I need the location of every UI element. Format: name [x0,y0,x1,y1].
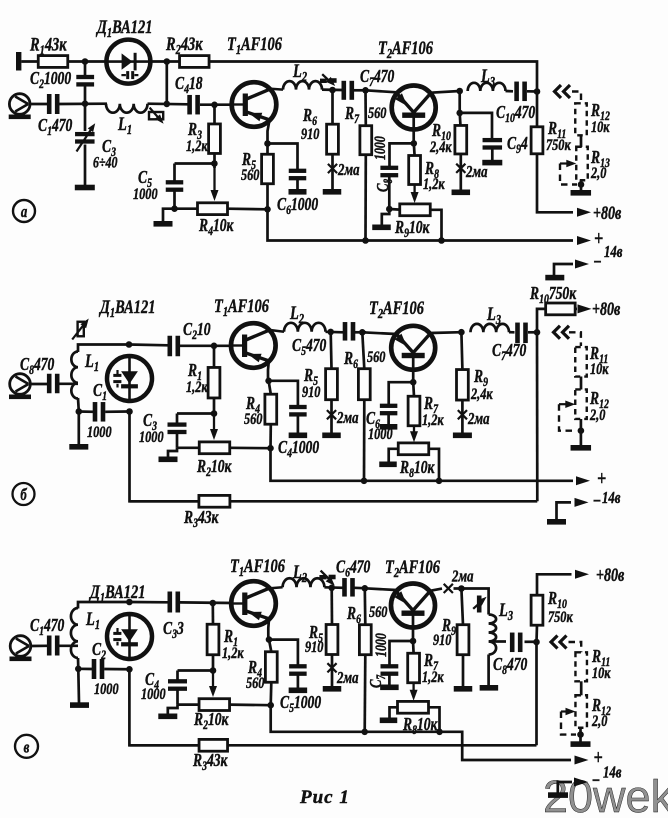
label C4 18 [175,74,203,96]
label T2 AF106 b [369,297,424,321]
wire C3 leads [84,104,87,185]
wire R4 bottom [269,424,272,448]
resistor R4 560 b [265,394,277,424]
resistor R1 b [208,367,220,398]
capacitor C1 v [47,636,60,656]
label R7 value v [422,668,444,686]
label C4 1000 b [278,438,319,460]
capacitor C7 v [381,664,399,676]
wire to ground [168,448,177,457]
wire R4 left to ground [163,209,198,222]
label R8 value [423,175,445,193]
node R4-R2 v [267,702,274,709]
wire top row to C3 v [129,601,168,604]
label R8 [424,159,439,181]
svg-text:14в: 14в [604,243,623,261]
svg-text:1,2к: 1,2к [186,378,208,396]
transistor T1 AF106 b [231,323,276,368]
inductor L2 b [284,323,326,332]
svg-text:1000: 1000 [94,680,119,698]
diode D1 BA121 v (varicap) [107,614,152,659]
ground R13 [571,190,592,196]
wire [150,60,180,63]
label C5 470 b [292,336,326,358]
label R13 [590,148,610,170]
wire R2 left [177,446,199,449]
wire [60,382,79,385]
svg-text:Д1ВА121: Д1ВА121 [88,581,145,605]
wire C5 row [175,162,215,165]
label R1 value b [186,378,208,396]
node C6-R6 v [362,585,369,592]
wire R1 bottom v [212,655,215,673]
transistor T1 AF106 [232,82,277,127]
variable capacitor C3 [75,123,95,151]
label L2 [292,60,307,84]
svg-text:1000: 1000 [368,425,393,443]
wire to ground v [168,705,178,714]
ground minus stub b [547,519,566,525]
wiper arrow into R2 b [210,415,218,440]
wire [30,103,47,106]
wiper arrow into R4 [211,165,219,201]
wire C3 row [177,412,214,415]
wire top rail to +80v corner [209,62,573,213]
capacitor C6 b [380,404,398,416]
label +80v [593,202,622,223]
transistor T2 AF106 b [391,326,435,370]
capacitor C4 v [168,679,187,691]
label R7 [344,104,360,126]
ground R10 [452,190,471,196]
svg-text:560: 560 [241,166,259,184]
node D1-R2 [164,58,171,65]
chevrons AGC b [554,326,570,339]
input jack b [9,374,31,399]
resistor R9 910 v [457,625,469,655]
label L1 b [84,350,99,374]
svg-text:1000: 1000 [87,423,112,441]
label R10 [431,121,451,143]
svg-text:C6470: C6470 [336,558,370,580]
label C3 b [143,411,157,433]
ground C5 v [289,688,308,694]
resistor R4 560 v [265,652,277,683]
svg-text:+: + [594,746,603,770]
label C7 470 b [492,341,526,363]
trimmer core arrow L2 [320,74,337,86]
label L2 v [292,561,307,585]
wire T1 collector [271,88,283,91]
label 2ma R5 v [336,669,359,687]
label T2 AF106 v [385,556,440,580]
wire [60,644,79,647]
label T1 AF106 v [230,555,285,579]
ground R8 v [380,718,398,724]
svg-text:10к: 10к [592,664,611,682]
node R6-rail1 [361,478,368,485]
resistor R3 43k b [199,495,230,507]
wire rail2 right leg b [536,332,539,501]
wire R9 right to rail [430,210,441,241]
wire [31,383,48,386]
wire R4 right [228,207,268,210]
label R12 value v [591,712,607,730]
wire [60,102,108,105]
ground C6 b [380,424,398,430]
wire [200,103,233,106]
svg-text:T1AF106: T1AF106 [214,295,269,319]
svg-text:2ма: 2ма [465,163,488,181]
wire R6 bottom to rail1 v [363,655,366,732]
svg-text:14в: 14в [602,489,621,507]
label +14v plus [594,227,603,251]
svg-text:1,2к: 1,2к [186,137,208,155]
wire R9 bottom [461,400,464,433]
svg-text:1000: 1000 [139,428,164,446]
ground C6 [289,189,307,195]
node R4-R5 [264,206,271,213]
label L3 [480,65,495,89]
transistor T2 AF106 [392,86,436,130]
dashed wire to R11 v [569,642,582,652]
label C3 3 v [163,619,184,641]
wire R6 top [331,90,334,124]
inductor L2 v [283,578,325,587]
node R1-C3row [211,410,218,417]
caption Ris 1 [299,787,350,808]
wire rail2 right leg v [535,642,538,745]
wire to ground [382,209,390,225]
wire R5 bottom v [331,655,334,687]
svg-text:1,2к: 1,2к [422,411,444,429]
node L1-D1 top [126,341,133,348]
minus supply stub b [557,498,589,520]
resistor R5 910 v [326,625,338,655]
inductor L3 b [471,324,510,332]
svg-text:−: − [592,770,601,791]
resistor R11 [531,127,543,154]
resistor R3 [209,124,221,154]
wire L3 tap to C8 v [492,640,506,643]
label L2 b [289,302,304,326]
circled letter a [13,200,35,222]
label C9 4 [507,134,528,156]
x mark 2ma R6 [328,164,337,173]
wire R6 top v [363,588,366,625]
wire [79,410,130,413]
label D1 BA121 b [98,296,155,320]
label R10 750k b [529,284,577,306]
node C2-R1-T1base [211,343,218,350]
wire R9 top v [461,589,463,625]
capacitor C3 b [168,422,187,434]
ground C9 [482,160,502,166]
wire R10 bottom [459,154,462,190]
node R13 bottom [578,181,585,188]
capacitor C2 b [168,336,181,357]
ground R12 v [571,741,591,747]
node R2-L1-C4 [164,101,171,108]
label R9 10k [394,218,430,240]
potentiometer R12 dashed v [575,695,587,728]
wire T2 collector out [431,91,460,93]
label R8 10k v [402,715,438,737]
diode D1 BA121 (varicap) [106,40,150,84]
ground R5 b [322,433,341,439]
label R6 value b [367,348,385,366]
svg-text:+80в: +80в [593,202,622,223]
wire C5 leads [173,164,176,209]
label R11 b [589,344,608,366]
label R4 value b [244,410,262,428]
svg-text:T2AF106: T2AF106 [385,556,440,580]
wire R6 bottom to rail1 [363,400,366,481]
svg-text:910: 910 [302,383,320,401]
label 14v b [602,489,621,507]
input jack v [10,636,32,661]
trimmer core arrow L2 v [319,571,335,586]
label minus v [592,770,601,791]
inductor L1 [106,104,148,113]
wire [355,586,368,589]
capacitor C7 [342,81,355,100]
svg-text:R343к: R343к [183,508,219,530]
arrow +14v b [576,476,590,485]
wire [148,102,189,105]
label C4 v [145,670,159,692]
svg-text:R143к: R143к [29,34,67,58]
wire C6 top [268,144,298,170]
wire R1 bottom [213,398,216,416]
capacitor C6 [289,169,307,181]
resistor R7 b [408,396,420,426]
capacitor C6 v [342,578,355,597]
wire T2 base down [412,118,415,145]
ground R9 v [454,686,473,692]
label R1 value v [222,644,244,662]
wire R1 top [213,346,216,368]
wire C6 bottom [296,180,299,190]
svg-text:1000: 1000 [373,136,390,160]
wiper arrow R13 [560,160,576,168]
wire [324,586,343,589]
svg-text:10к: 10к [591,118,610,136]
svg-text:R10750к: R10750к [529,284,577,306]
label 2ma T2 v [451,568,474,586]
svg-text:+80в: +80в [596,564,625,585]
wire emitter T1 down [268,120,270,155]
node T2c-L3-R9 b [458,329,465,336]
inductor L1 b (vertical) [71,352,78,399]
arrow +80v [577,208,591,217]
node L1-D1 top v [126,599,133,606]
ground R12 b [571,445,592,451]
wire L1 top corner v [78,602,130,609]
svg-text:R810к: R810к [399,458,435,480]
wire R4 top v [269,640,271,652]
label R12 value [591,118,610,136]
node D1-C1 [126,408,133,415]
wire R4 top [269,381,271,394]
wire T2 collector out v [430,589,442,591]
svg-text:T1AF106: T1AF106 [227,33,282,57]
wire rail2 v [129,744,536,747]
ground R9 b [453,433,472,439]
wire [78,667,130,670]
svg-text:R210к: R210к [193,710,229,732]
potentiometer R8 b [398,443,429,455]
label C4 value v [141,685,166,703]
label R11 value [546,136,571,154]
wire R9 top [461,332,462,369]
svg-text:2ма: 2ма [337,161,360,179]
wire [454,587,463,590]
node T1e-R4-C5 v [266,636,273,643]
ground R4 [154,221,173,227]
svg-text:2,0: 2,0 [589,406,605,424]
wire emitter T1 v [267,619,270,641]
label R4 b [245,394,260,416]
ground R2/C4 v [158,714,177,720]
label R5 value v [305,638,323,656]
wire R10 lead up [537,309,546,332]
wire T1 collector v [270,587,282,588]
potentiometer R2 b [199,442,230,454]
capacitor C10 [514,82,527,102]
label C3 [102,137,116,159]
wire R5 top v [330,588,333,625]
label R2 10k b [196,457,232,479]
resistor R1 v [207,624,219,655]
wire [355,331,366,334]
wire C2 leads [84,62,87,104]
x mark 2ma R5 b [327,410,336,419]
x mark 2ma R5 v [327,663,336,672]
label T1 AF106 [227,33,282,57]
node C7-R10 b [534,329,541,336]
wire [506,90,514,93]
potentiometer R8 v [398,701,429,713]
label R2 43k [165,33,203,57]
link R11-R12 v [580,681,583,695]
label +14v plus b [597,467,606,491]
ground minus stub v [548,792,568,798]
diode D1 BA121 b (varicap) [107,356,152,401]
node C8-R9gnd [386,206,393,213]
svg-text:R243к: R243к [165,33,203,57]
label C2 1000 [30,69,71,91]
label +80v v [596,564,625,585]
ground tank v [70,702,89,708]
input jack [9,94,31,119]
terminal X1 (antenna) [16,52,21,71]
label R6 [302,106,317,128]
wire to T2 emitter [366,90,397,92]
svg-text:560: 560 [369,603,387,621]
node R9-rail [438,237,445,244]
svg-text:C8470: C8470 [493,655,527,677]
label D1 BA121 [95,16,152,40]
wire C6 top b [389,382,414,404]
trimmer core symbol L1 [149,108,164,124]
label R8 10k b [399,458,435,480]
wire R4 bottom v [269,682,272,705]
label 2ma R9 b [467,410,490,428]
resistor R11 dashed v [575,652,587,681]
svg-text:C61000: C61000 [277,195,318,217]
label L3 v [498,599,513,623]
svg-text:R410к: R410к [198,216,234,238]
label T1 AF106 b [214,295,269,319]
capacitor C8 [380,166,398,178]
label C2 v [92,640,106,662]
svg-text:R810к: R810к [402,715,438,737]
dashed wire to R11 b [569,332,581,346]
wire R2 right [230,446,271,449]
wire top row to C2 [129,343,168,346]
node R8-rail1 [436,478,443,485]
label C8 1000 (vertical) [373,136,396,192]
wire T2 collector out b [430,331,461,334]
wire C4 bottom [297,416,300,433]
circled letter v [15,735,38,758]
svg-text:C1470: C1470 [38,116,72,138]
label C10 470 [496,103,535,125]
label R10 v [547,589,567,611]
svg-text:C210: C210 [183,320,211,342]
label C1 470 [38,116,72,138]
label R7 b [423,394,439,416]
label C6 b [366,409,380,431]
capacitor C4 b [289,405,307,417]
ground C3 [75,185,95,191]
label R12 [590,101,610,123]
label 14v v [603,764,622,782]
wire [180,601,233,604]
svg-text:1,2к: 1,2к [423,175,445,193]
wire C5 bottom v [297,676,300,689]
svg-text:C21000: C21000 [30,69,71,91]
capacitor C5 b [343,322,356,341]
svg-text:+80в: +80в [592,298,621,319]
svg-text:в: в [24,739,30,757]
wire rail2 b [130,500,538,503]
svg-text:1000: 1000 [133,185,158,203]
label R4 v [247,658,262,680]
wiper arrow into R8 v [410,683,418,701]
svg-text:560: 560 [367,348,385,366]
node R12 bottom b [578,427,585,434]
resistor R6 [327,124,339,154]
label R10 value [429,138,452,156]
label C7 1000 v (vertical) [367,633,390,688]
potentiometer R12 dashed b [575,389,587,419]
capacitor C5 [166,180,184,192]
wiper arrow R12 b [559,400,575,408]
node C5-R6 b [359,329,366,336]
wire R6 top [362,332,364,368]
wire [528,331,538,334]
label R6 b [343,349,358,371]
svg-text:+: + [594,227,603,251]
node T2c-R9 v [458,585,465,592]
transistor T1 AF106 v [231,581,276,626]
node C3-R1-T1base v [210,600,217,607]
svg-text:750к: 750к [548,608,573,626]
node R4-R2 [267,445,274,452]
label L1 v [85,608,100,632]
